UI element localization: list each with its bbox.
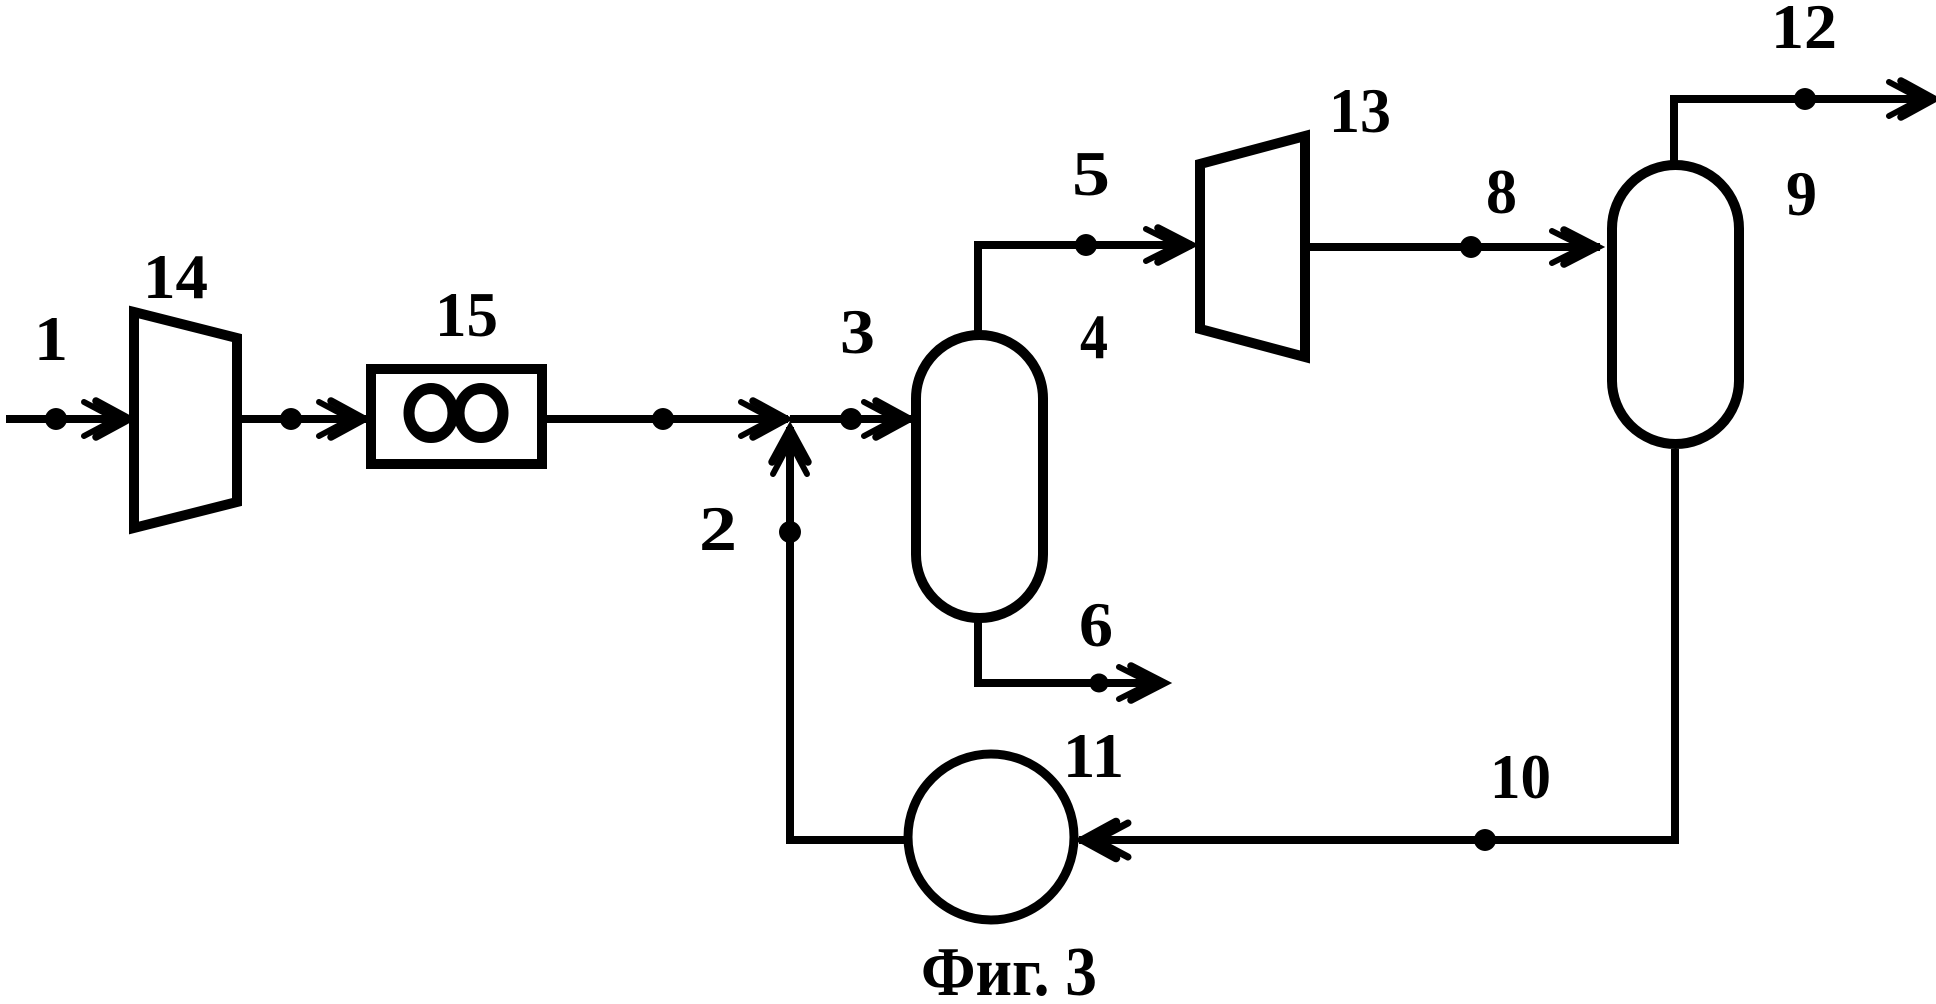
node dot on line 6 bbox=[1090, 674, 1109, 693]
svg-text:4: 4 bbox=[1080, 302, 1108, 372]
arrow at end of line 6 bbox=[1119, 666, 1164, 700]
svg-text:15: 15 bbox=[435, 280, 498, 350]
node dot after junction bbox=[840, 408, 862, 430]
wire vessel 9 bottom and line 10 bbox=[1079, 449, 1675, 840]
arrow at end of line 12 bbox=[1889, 81, 1934, 117]
infinity symbol in unit 15 bbox=[409, 389, 503, 438]
node dot on wire before junction bbox=[652, 408, 674, 430]
arrow into vessel 9 bbox=[1552, 230, 1597, 264]
arrow into compressor 14 bbox=[84, 401, 129, 437]
svg-text:3: 3 bbox=[840, 297, 875, 367]
svg-text:13: 13 bbox=[1329, 76, 1391, 146]
arrow up at junction from line 2 bbox=[772, 429, 808, 474]
arrow into pump 11 bbox=[1083, 822, 1128, 858]
arrow at junction from left bbox=[741, 401, 786, 437]
wire 14 to 15 bbox=[242, 415, 366, 423]
wire line 6 outlet from vessel 4 bottom bbox=[978, 620, 1158, 683]
arrow into unit 15 bbox=[319, 401, 364, 437]
node dot on line 1 bbox=[45, 408, 67, 430]
svg-text:8: 8 bbox=[1486, 157, 1517, 227]
svg-text:Фиг. 3: Фиг. 3 bbox=[921, 934, 1097, 1004]
node dot on line 2 bbox=[779, 521, 801, 543]
svg-text:11: 11 bbox=[1063, 721, 1124, 791]
separator vessel 4 bbox=[916, 335, 1043, 618]
wire line 5 from vessel 4 top to expander 13 bbox=[978, 245, 1192, 332]
wire line 12 outlet from vessel 9 top bbox=[1674, 99, 1928, 163]
svg-text:5: 5 bbox=[1072, 139, 1110, 209]
node dot on line 8 bbox=[1460, 236, 1482, 258]
wire line 8 from expander 13 to vessel 9 bbox=[1306, 243, 1600, 251]
svg-text:10: 10 bbox=[1490, 742, 1551, 812]
node dot on line 10 bbox=[1474, 829, 1496, 851]
wire 15 to junction bbox=[547, 415, 788, 423]
svg-text:9: 9 bbox=[1786, 159, 1817, 229]
pump 11 circle bbox=[908, 754, 1074, 920]
node dot between 14 and 15 bbox=[280, 408, 302, 430]
node dot on line 12 bbox=[1794, 88, 1816, 110]
wire line 2 vertical riser to junction bbox=[790, 427, 908, 840]
node dot on line 5 bbox=[1075, 234, 1097, 256]
wire inlet line 1 bbox=[6, 415, 130, 423]
svg-text:12: 12 bbox=[1771, 0, 1837, 62]
svg-text:2: 2 bbox=[699, 494, 737, 564]
arrow into separator 4 bbox=[864, 401, 909, 437]
compressor 14 bbox=[134, 312, 237, 528]
separator vessel 9 bbox=[1612, 165, 1739, 444]
filter unit 15 box bbox=[371, 369, 542, 464]
expander 13 bbox=[1200, 136, 1305, 357]
wire junction to separator 4 bbox=[790, 415, 912, 423]
svg-text:1: 1 bbox=[34, 304, 68, 374]
svg-text:6: 6 bbox=[1079, 590, 1113, 660]
arrow into expander 13 bbox=[1146, 228, 1191, 262]
svg-text:14: 14 bbox=[143, 242, 208, 312]
